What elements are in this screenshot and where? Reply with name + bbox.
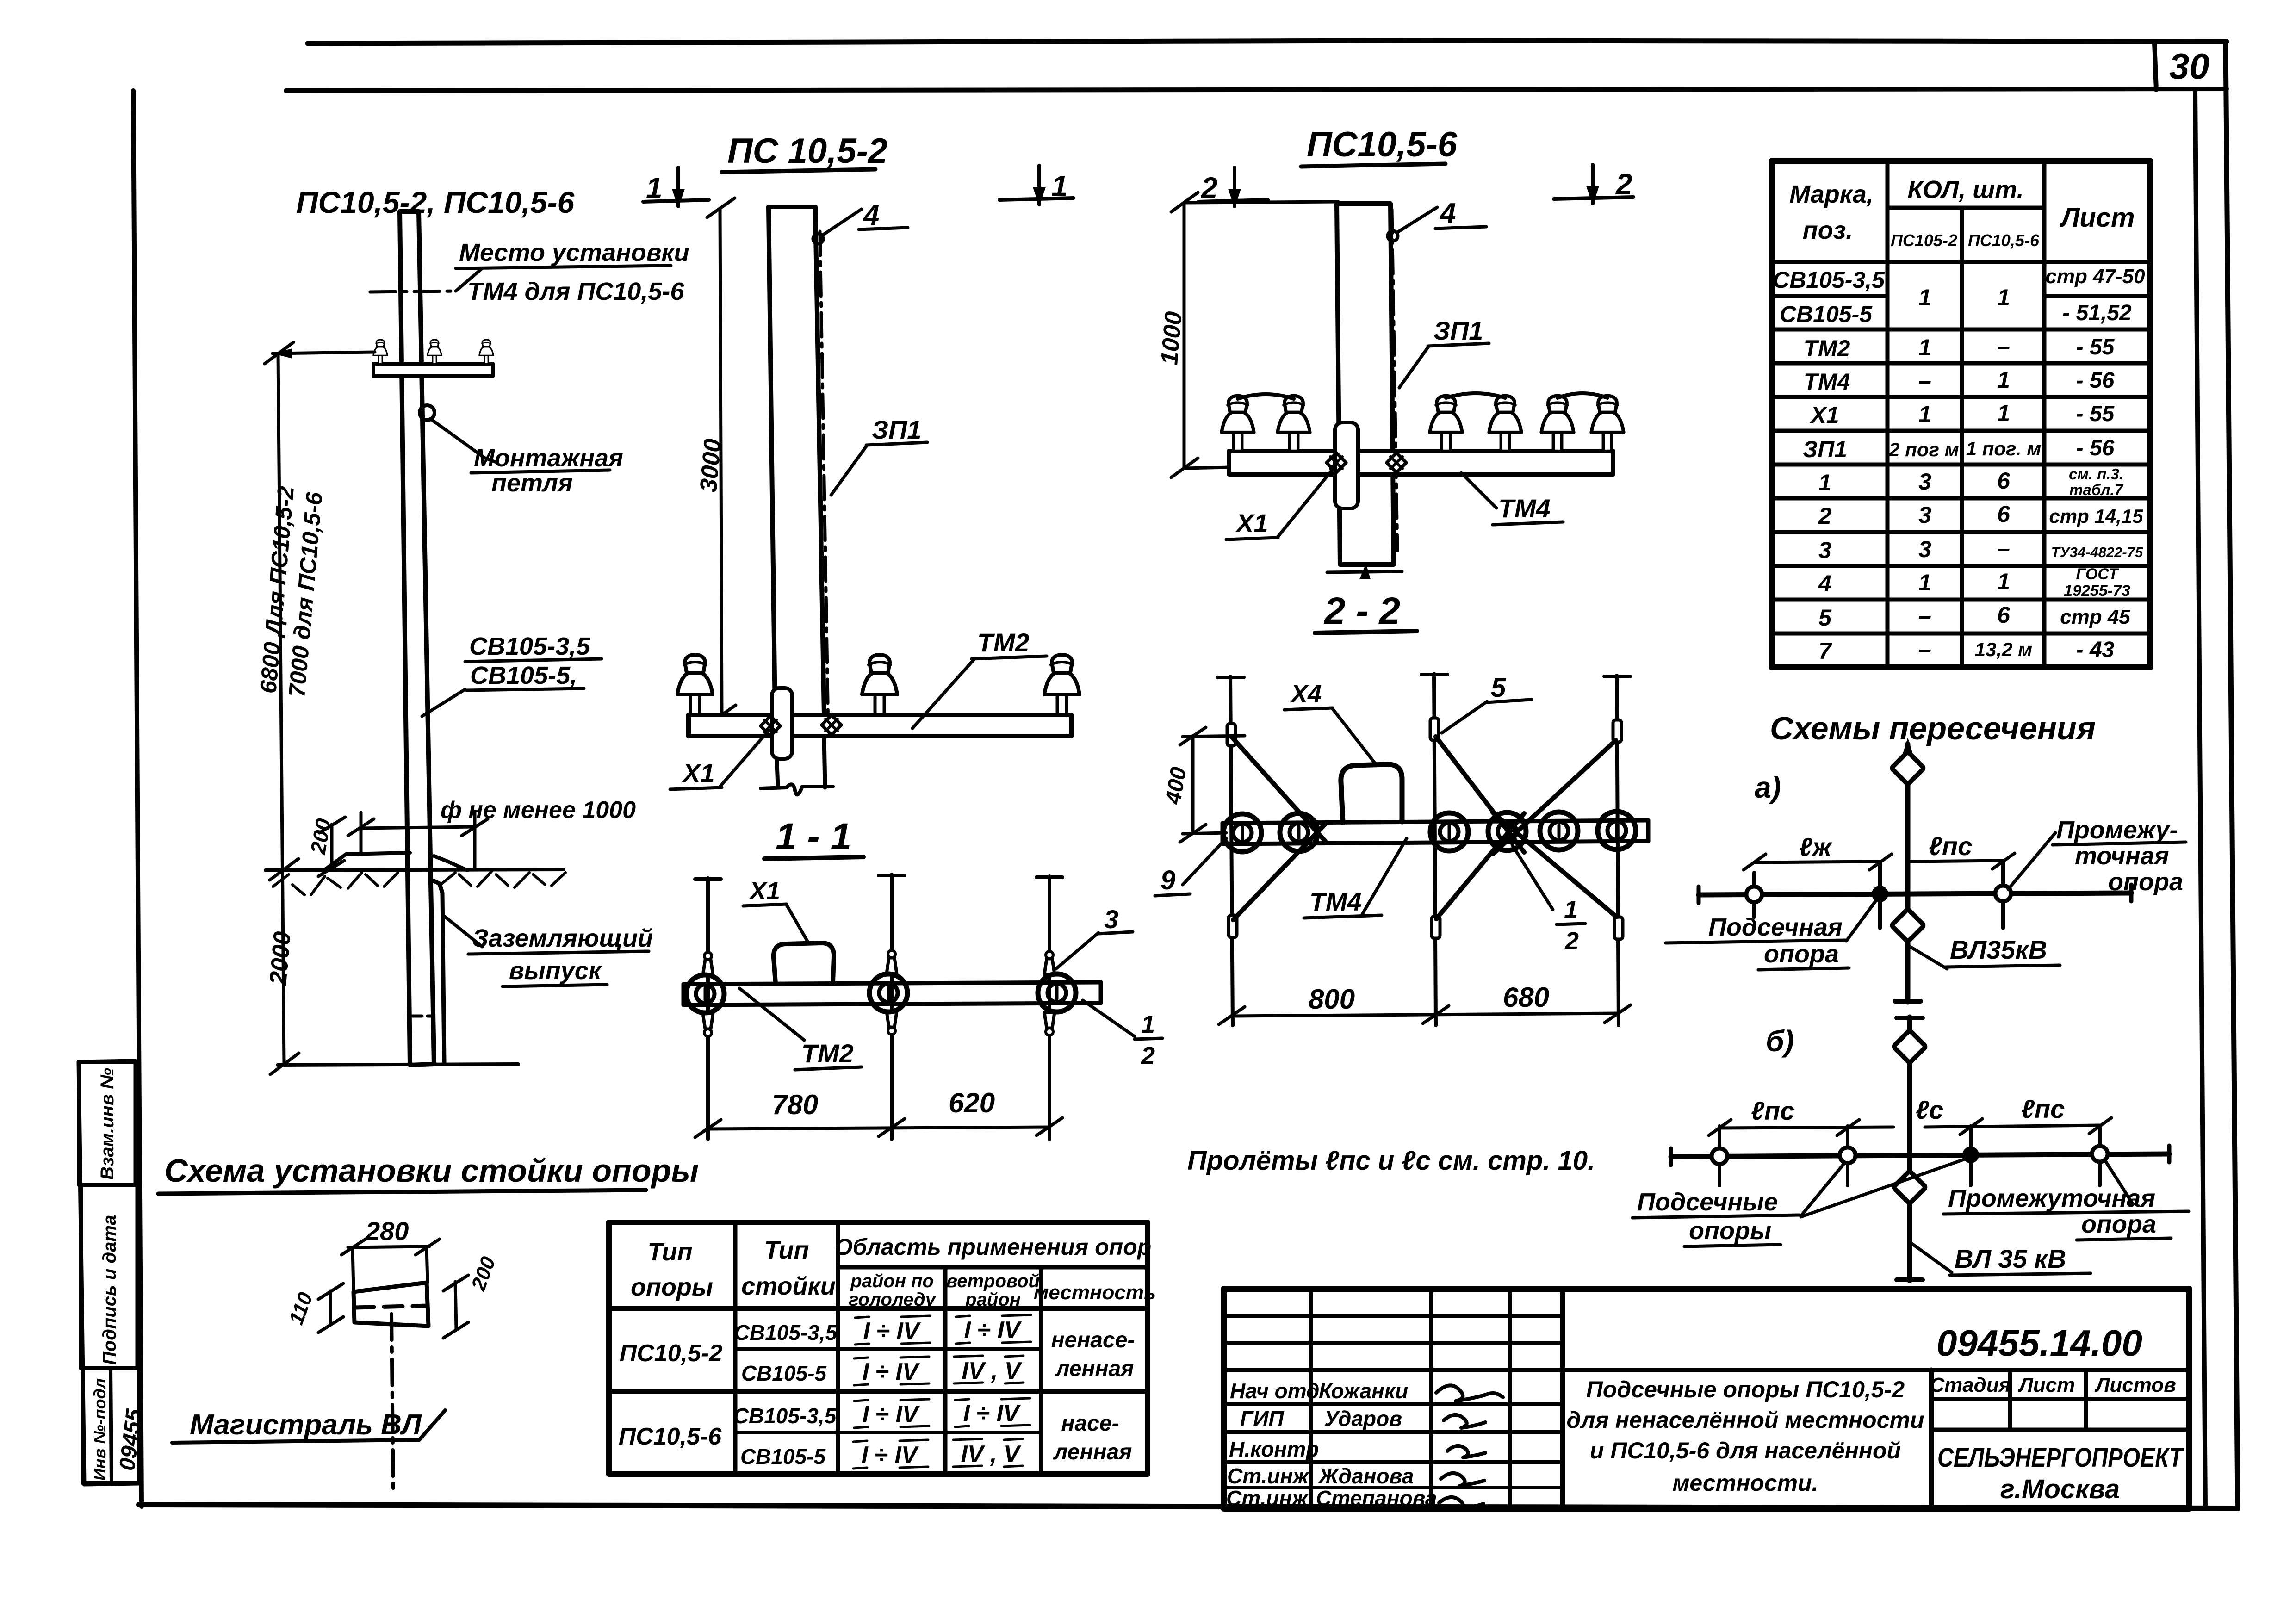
insulator 3	[1430, 396, 1462, 451]
wire axis 1 (2-2)	[1230, 676, 1233, 1025]
dimension 3000 vertical	[720, 208, 722, 715]
svg-text:СВ105-5,: СВ105-5,	[470, 662, 577, 689]
svg-text:1: 1	[1997, 285, 2010, 310]
jumper wire 3-4	[1446, 393, 1505, 398]
applications table body text	[619, 1317, 1135, 1469]
scheme a) node open 2	[1995, 886, 2011, 901]
insulator 2	[1278, 396, 1310, 451]
svg-text:- 56: - 56	[2076, 436, 2115, 460]
pole break line	[761, 784, 833, 794]
scheme a) support ticks	[1752, 873, 1756, 917]
svg-text:Листов: Листов	[2094, 1374, 2176, 1396]
diagonal brace left upper	[1232, 738, 1325, 841]
insulator section 1	[686, 975, 724, 1013]
svg-text:стр 14,15: стр 14,15	[2049, 505, 2143, 527]
svg-text:ГИП: ГИП	[1240, 1407, 1284, 1431]
svg-text:Степанова: Степанова	[1316, 1486, 1437, 1510]
parts table column lines	[1886, 161, 1890, 667]
svg-text:Промежу-: Промежу-	[2056, 816, 2178, 844]
svg-text:I ÷ IV: I ÷ IV	[964, 1317, 1022, 1344]
svg-text:1: 1	[1818, 470, 1831, 496]
svg-text:5: 5	[1818, 605, 1832, 631]
scheme б) node open 4	[2092, 1146, 2108, 1162]
svg-text:ленная: ленная	[1055, 1357, 1134, 1381]
svg-text:1: 1	[1997, 367, 2010, 393]
svg-text:2 пог м: 2 пог м	[1888, 439, 1959, 460]
jumper wire 5-6	[1558, 393, 1607, 398]
scheme б) node filled 3	[1962, 1147, 1979, 1163]
svg-text:1: 1	[1141, 1011, 1155, 1038]
dimension top reference line	[273, 352, 375, 353]
svg-text:ЗП1: ЗП1	[1433, 316, 1483, 345]
svg-text:Марка,: Марка,	[1789, 180, 1874, 208]
insulator section 3 (2-2)	[1430, 813, 1468, 851]
svg-text:район по: район по	[850, 1271, 934, 1291]
svg-text:г.Москва: г.Москва	[2000, 1474, 2120, 1504]
label 1/2 (section 2-2)	[1512, 845, 1553, 910]
svg-text:IV , V: IV , V	[962, 1358, 1022, 1384]
svg-text:6: 6	[1997, 602, 2011, 628]
insulator section 5 (2-2)	[1540, 812, 1578, 850]
svg-text:Подпись и дата: Подпись и дата	[99, 1215, 120, 1365]
scheme a) main line	[1699, 893, 2131, 895]
svg-text:Х1: Х1	[748, 877, 780, 905]
crossarm bolt left (right elevation)	[1327, 453, 1346, 472]
dimension 400 vertical	[1191, 736, 1195, 833]
bracket X1 on pole	[772, 688, 792, 759]
insulator section 2 (2-2)	[1280, 813, 1318, 851]
bolt item 4 on pole top	[813, 234, 823, 244]
ground hatching	[273, 872, 565, 895]
svg-text:4: 4	[1439, 198, 1456, 229]
svg-text:СЕЛЬЭНЕРГОПРОЕКТ: СЕЛЬЭНЕРГОПРОЕКТ	[1937, 1443, 2184, 1473]
insulator 1	[677, 655, 713, 715]
ground line	[266, 869, 564, 870]
dimension line 6800/7000 vertical	[278, 353, 284, 1064]
svg-text:1: 1	[1918, 570, 1931, 595]
svg-text:620: 620	[949, 1087, 995, 1118]
insulator 5	[1541, 396, 1574, 451]
diagonal brace left lower	[1233, 824, 1325, 920]
crossarm ТМ2 (middle elevation)	[689, 715, 1071, 736]
label Промежуточная опора (scheme a)	[2008, 833, 2055, 889]
svg-text:Схема установки стойки опоры: Схема установки стойки опоры	[164, 1153, 699, 1189]
svg-text:стр 47-50: стр 47-50	[2045, 265, 2145, 288]
svg-text:1: 1	[1564, 896, 1578, 924]
svg-text:ПС10,5-6: ПС10,5-6	[1307, 125, 1458, 164]
scheme a) node open 1	[1746, 887, 1762, 902]
sidebar cell Подпись и дата	[81, 1185, 137, 1368]
svg-text:ℓпс: ℓпс	[1751, 1096, 1794, 1125]
dimension 200 (right)	[455, 1282, 456, 1330]
parts table body text	[1773, 265, 2145, 664]
svg-text:19255-73: 19255-73	[2064, 582, 2130, 600]
svg-text:- 55: - 55	[2076, 402, 2115, 426]
svg-text:гололеду: гололеду	[849, 1290, 936, 1310]
svg-text:ℓпс: ℓпс	[2021, 1094, 2065, 1123]
dimension line 800/680	[1232, 1013, 1618, 1016]
dimension 200 mound height	[330, 825, 334, 866]
svg-text:Ст.инж: Ст.инж	[1226, 1486, 1309, 1510]
insulator pin above 3	[1044, 951, 1055, 974]
label ТМ4 (right elevation)	[1461, 473, 1496, 508]
applications table header lines	[838, 1265, 1148, 1270]
svg-text:ВЛ35кВ: ВЛ35кВ	[1950, 935, 2047, 964]
svg-text:см. п.3.: см. п.3.	[2069, 465, 2123, 483]
parts table header lines	[1887, 206, 2044, 210]
wire axis 3	[1048, 876, 1051, 1139]
svg-text:Область применения опор: Область применения опор	[835, 1234, 1152, 1260]
svg-text:2: 2	[1141, 1042, 1155, 1070]
sheet top edge line	[308, 41, 2227, 43]
svg-text:поз.: поз.	[1803, 217, 1853, 244]
svg-text:опоры: опоры	[631, 1273, 713, 1301]
svg-text:–: –	[1918, 603, 1931, 629]
pole bottom dimension arrow	[1327, 571, 1402, 572]
svg-text:Жданова: Жданова	[1318, 1464, 1414, 1488]
svg-text:ТМ4: ТМ4	[1804, 369, 1850, 395]
svg-text:ЗП1: ЗП1	[1803, 436, 1847, 462]
svg-text:ТМ4: ТМ4	[1309, 887, 1362, 916]
svg-text:ВЛ 35 кВ: ВЛ 35 кВ	[1955, 1244, 2066, 1273]
svg-text:Подсечные: Подсечные	[1637, 1188, 1778, 1216]
svg-text:680: 680	[1503, 982, 1549, 1013]
insulator 6	[1591, 396, 1624, 451]
diagonal brace right group	[1436, 737, 1524, 852]
svg-text:I ÷ IV: I ÷ IV	[963, 1400, 1021, 1427]
svg-text:I ÷ IV: I ÷ IV	[863, 1318, 921, 1345]
label Заземляющий выпуск	[444, 916, 482, 947]
scheme a) span dimension left	[1754, 862, 1880, 862]
svg-text:ленная: ленная	[1053, 1440, 1132, 1464]
insulator 4	[1489, 396, 1521, 451]
backfill mound	[324, 853, 410, 870]
grounding rod Заземляющий выпуск	[434, 881, 444, 1062]
signature squiggles	[1436, 1385, 1503, 1401]
svg-text:для ненаселённой местности: для ненаселённой местности	[1566, 1407, 1924, 1433]
insulator section 3	[1038, 974, 1076, 1012]
svg-text:ТМ2: ТМ2	[977, 628, 1030, 657]
svg-text:13,2 м: 13,2 м	[1975, 639, 2032, 660]
stage header Стадия Лист Листов	[2008, 1370, 2012, 1430]
svg-text:Подсечные опоры ПС10,5-2: Подсечные опоры ПС10,5-2	[1586, 1376, 1905, 1402]
svg-text:5: 5	[1491, 673, 1506, 703]
svg-text:ПС105-2: ПС105-2	[1891, 231, 1957, 250]
crossarm bolt left	[761, 716, 780, 736]
insulator on crossarm 3	[479, 340, 493, 364]
svg-text:б): б)	[1766, 1024, 1794, 1058]
svg-text:2000: 2000	[265, 930, 296, 986]
svg-text:–: –	[1997, 535, 2010, 561]
svg-text:2: 2	[1818, 503, 1831, 529]
scheme б) diamond lower	[1893, 1171, 1926, 1204]
applications table column lines	[733, 1222, 738, 1474]
scheme a) node filled (подсечная опора)	[1872, 886, 1888, 902]
svg-text:1 - 1: 1 - 1	[776, 816, 851, 858]
svg-text:1: 1	[1918, 335, 1931, 360]
svg-text:4: 4	[1818, 570, 1831, 596]
svg-text:ПС10,5-2: ПС10,5-2	[620, 1340, 722, 1367]
svg-text:ℓж: ℓж	[1799, 832, 1833, 862]
scheme б) crossing line vertical	[1907, 1017, 1912, 1281]
name row lines	[1224, 1402, 1563, 1406]
crossarm ТМ4 (right elevation)	[1229, 451, 1613, 474]
label 1/2 fraction	[1083, 1000, 1135, 1036]
scheme б) node open 2	[1840, 1147, 1855, 1163]
sidebar divider for 09455 cell	[111, 1368, 112, 1483]
wire axis 2	[890, 874, 894, 1139]
crossarm bar section 1-1	[683, 982, 1101, 984]
svg-text:ТМ4 для ПС10,5-6: ТМ4 для ПС10,5-6	[467, 278, 684, 305]
title block frame	[1224, 1289, 2189, 1508]
mounting loop (Монтажная петля)	[420, 405, 434, 420]
svg-text:- 51,52: - 51,52	[2062, 301, 2132, 325]
bolt item 4 (right elevation)	[1388, 231, 1398, 241]
ТМ4 mounting level dash-dot line	[370, 291, 456, 292]
svg-text:800: 800	[1309, 984, 1355, 1015]
title block vertical lines	[1309, 1289, 1313, 1508]
svg-text:СВ105-5: СВ105-5	[741, 1361, 827, 1385]
svg-text:I ÷ IV: I ÷ IV	[862, 1358, 920, 1385]
svg-text:I ÷ IV: I ÷ IV	[862, 1401, 920, 1428]
svg-text:ПС10,5-6: ПС10,5-6	[619, 1423, 722, 1450]
insulator on crossarm 1	[373, 340, 387, 364]
staple X4	[1341, 764, 1402, 823]
svg-text:Тип: Тип	[648, 1238, 693, 1266]
svg-text:Пролёты ℓпс и ℓс см. стр. 10.: Пролёты ℓпс и ℓс см. стр. 10.	[1187, 1146, 1595, 1176]
pole below crossarm	[776, 736, 778, 787]
svg-text:–: –	[1997, 334, 2010, 360]
svg-text:280: 280	[365, 1216, 409, 1246]
svg-text:3: 3	[1918, 536, 1931, 562]
svg-text:ТМ4: ТМ4	[1498, 494, 1551, 523]
insulator pin below 3	[1044, 1012, 1055, 1035]
scheme a) crossing line ВЛ 35кВ vertical	[1905, 744, 1911, 1002]
svg-text:опоры: опоры	[1689, 1217, 1771, 1245]
scheme б) support ticks	[1718, 1126, 1721, 1185]
svg-text:30: 30	[2169, 46, 2209, 87]
svg-text:IV , V: IV , V	[961, 1441, 1021, 1468]
svg-text:опора: опора	[1764, 940, 1839, 968]
svg-text:СВ105-3,5: СВ105-3,5	[734, 1321, 838, 1345]
svg-text:2: 2	[1564, 927, 1579, 955]
svg-text:1 пог. м: 1 пог. м	[1966, 438, 2042, 459]
svg-text:Взам.инв №: Взам.инв №	[97, 1068, 118, 1180]
svg-text:СВ105-3,5: СВ105-3,5	[1773, 267, 1885, 293]
svg-text:Х1: Х1	[1809, 402, 1839, 428]
svg-text:4: 4	[863, 199, 879, 231]
svg-text:ПС 10,5-2: ПС 10,5-2	[727, 131, 887, 171]
svg-text:СВ105-3,5: СВ105-3,5	[733, 1404, 837, 1428]
svg-text:точная: точная	[2075, 842, 2169, 870]
sidebar cell Взам инв №	[79, 1062, 136, 1185]
insulator pin below 2	[887, 1011, 897, 1035]
svg-text:местность: местность	[1034, 1281, 1156, 1304]
svg-text:Заземляющий: Заземляющий	[472, 924, 653, 952]
svg-text:ТУ34-4822-75: ТУ34-4822-75	[2051, 544, 2143, 560]
scheme a) diamond upper	[1892, 752, 1924, 785]
svg-text:Стадия: Стадия	[1930, 1374, 2011, 1396]
line axis Магистраль ВЛ dash-dot	[391, 1314, 393, 1494]
svg-text:I ÷ IV: I ÷ IV	[861, 1442, 919, 1469]
svg-text:табл.7: табл.7	[2069, 481, 2123, 498]
wire axis 3 (2-2)	[1617, 676, 1619, 1025]
svg-text:КОЛ, шт.: КОЛ, шт.	[1907, 176, 2023, 204]
crossarm bar section 2-2	[1222, 820, 1648, 823]
dash-dot inside pole bottom	[410, 1015, 434, 1018]
pole stand СВ105 (left elevation)	[400, 211, 434, 1065]
svg-text:ГОСТ: ГОСТ	[2076, 565, 2120, 583]
svg-text:а): а)	[1755, 771, 1781, 804]
scheme б) diamond upper	[1893, 1030, 1926, 1063]
scheme a) span dimension right	[1908, 861, 2003, 862]
svg-text:3: 3	[1918, 469, 1931, 495]
svg-text:стойки: стойки	[741, 1272, 836, 1300]
scheme б) main line	[1671, 1154, 2169, 1157]
svg-text:Инв №-подл: Инв №-подл	[90, 1378, 109, 1481]
label 4	[823, 209, 862, 235]
svg-text:09455.14.00: 09455.14.00	[1936, 1322, 2142, 1364]
svg-text:Тип: Тип	[764, 1236, 809, 1264]
svg-text:Нач отд: Нач отд	[1230, 1379, 1319, 1403]
insulator section 6 (2-2)	[1598, 812, 1636, 849]
svg-text:1000: 1000	[1156, 310, 1187, 366]
insulator 3	[1044, 655, 1080, 715]
svg-text:Монтажная: Монтажная	[474, 444, 623, 472]
svg-text:–: –	[1918, 368, 1931, 394]
svg-text:ветровой: ветровой	[946, 1271, 1040, 1291]
crossarm bolt right	[822, 715, 841, 735]
crossarm bolt right (right elevation)	[1387, 453, 1406, 472]
svg-text:Ударов: Ударов	[1324, 1407, 1402, 1431]
dimension line 780/620	[708, 1127, 1049, 1129]
svg-text:1: 1	[1997, 569, 2010, 595]
svg-text:2 - 2: 2 - 2	[1323, 590, 1400, 632]
svg-text:1: 1	[1997, 400, 2010, 426]
insulator pin above 1	[703, 952, 713, 975]
svg-text:ЗП1: ЗП1	[872, 415, 921, 444]
svg-text:Место установки: Место установки	[459, 239, 689, 267]
frame top border	[286, 89, 2227, 91]
svg-text:местности.: местности.	[1672, 1470, 1818, 1496]
insulator section 4 (2-2)	[1488, 812, 1526, 850]
svg-text:ПС10,5-2, ПС10,5-6: ПС10,5-2, ПС10,5-6	[296, 185, 575, 219]
insulator pin above 2	[887, 950, 897, 973]
svg-text:стр 45: стр 45	[2060, 606, 2130, 628]
svg-text:выпуск: выпуск	[509, 957, 602, 985]
insulator section 2	[869, 974, 907, 1012]
svg-text:- 55: - 55	[2076, 335, 2115, 360]
svg-text:3: 3	[1918, 502, 1931, 528]
dimension 1000 vertical	[1183, 203, 1186, 468]
svg-text:Х4: Х4	[1290, 680, 1322, 708]
svg-text:ПС10,5-6: ПС10,5-6	[1968, 231, 2040, 250]
signature rows text	[1226, 1379, 1437, 1510]
label 4 (right elevation)	[1397, 207, 1437, 232]
svg-text:насе-: насе-	[1061, 1411, 1119, 1436]
insulator pin below 1	[703, 1013, 713, 1036]
svg-text:опора: опора	[2081, 1210, 2156, 1238]
crossarm (left elevation)	[373, 364, 493, 376]
svg-text:ф не менее 1000: ф не менее 1000	[441, 797, 636, 824]
svg-text:ненасе-: ненасе-	[1051, 1328, 1135, 1352]
svg-text:780: 780	[772, 1089, 818, 1120]
pole stand (right elevation)	[1337, 204, 1394, 564]
svg-text:Лист: Лист	[2059, 203, 2135, 233]
insulator 1	[1222, 396, 1254, 451]
right border inner line	[2195, 90, 2205, 1507]
grounding conductor ЗП1 dash-dot (right)	[1392, 209, 1397, 551]
svg-text:ℓс: ℓс	[1916, 1095, 1943, 1124]
right border outer line	[2226, 43, 2238, 1507]
label ВЛ35кВ (scheme a)	[1910, 947, 1947, 969]
grounding conductor ЗП1 dash-dot	[820, 231, 828, 729]
svg-text:район: район	[965, 1290, 1021, 1310]
svg-text:опора: опора	[2108, 868, 2183, 896]
insulator 2	[862, 655, 897, 715]
pole bottom reference line	[278, 1064, 518, 1065]
pole stub plan view	[354, 1283, 428, 1326]
pole stand (middle elevation)	[769, 207, 824, 715]
applications table row lines	[735, 1347, 1041, 1351]
svg-text:ТМ2: ТМ2	[801, 1039, 854, 1068]
svg-text:3: 3	[1104, 905, 1118, 934]
svg-text:3: 3	[1818, 537, 1831, 563]
drawing title text	[1566, 1376, 1924, 1496]
svg-text:СВ105-3,5: СВ105-3,5	[469, 632, 590, 660]
applications table frame	[609, 1222, 1148, 1474]
svg-text:9: 9	[1160, 865, 1175, 895]
insulator section 1 (2-2)	[1223, 814, 1261, 852]
page number box divider	[2154, 43, 2156, 90]
parts table row lines	[1772, 294, 1887, 298]
scheme a) diamond lower	[1892, 909, 1924, 942]
svg-text:- 43: - 43	[2076, 638, 2115, 662]
insulator on crossarm 2	[428, 340, 441, 364]
svg-text:7: 7	[1818, 638, 1832, 664]
svg-text:СВ105-5: СВ105-5	[740, 1445, 826, 1469]
svg-text:3000: 3000	[695, 438, 726, 493]
dimension 110 (left)	[329, 1291, 332, 1324]
dimension 1000 pit width	[361, 827, 476, 828]
svg-text:6: 6	[1997, 501, 2011, 527]
svg-text:1: 1	[1918, 285, 1931, 310]
left frame border	[133, 91, 142, 1507]
parts table header text	[1789, 176, 2135, 250]
parts table frame	[1772, 161, 2150, 667]
svg-text:6: 6	[1997, 468, 2011, 494]
svg-text:и ПС10,5-6 для населённой: и ПС10,5-6 для населённой	[1590, 1438, 1901, 1463]
svg-text:Х1: Х1	[682, 758, 715, 787]
roman numeral over/underlines	[853, 1315, 1031, 1469]
svg-text:Н.контр: Н.контр	[1229, 1437, 1319, 1461]
svg-text:Лист: Лист	[2018, 1374, 2075, 1396]
staple X1	[774, 943, 834, 983]
svg-text:Ст.инж: Ст.инж	[1227, 1464, 1309, 1488]
bracket X1 (right elevation)	[1335, 422, 1358, 508]
svg-text:петля: петля	[491, 469, 573, 497]
svg-text:Подсечная: Подсечная	[1708, 913, 1843, 941]
applications table header text	[631, 1234, 1156, 1310]
svg-text:–: –	[1918, 636, 1931, 662]
label Монтажная петля	[430, 419, 497, 463]
label ВЛ 35 кВ (scheme б)	[1912, 1244, 1952, 1272]
sidebar stamp column outline	[79, 1061, 139, 1484]
wire axis 1	[706, 878, 710, 1139]
wire clamps	[1227, 724, 1235, 746]
label ТМ2 (section 1-1)	[739, 988, 804, 1040]
svg-text:Промежуточная: Промежуточная	[1948, 1184, 2155, 1212]
